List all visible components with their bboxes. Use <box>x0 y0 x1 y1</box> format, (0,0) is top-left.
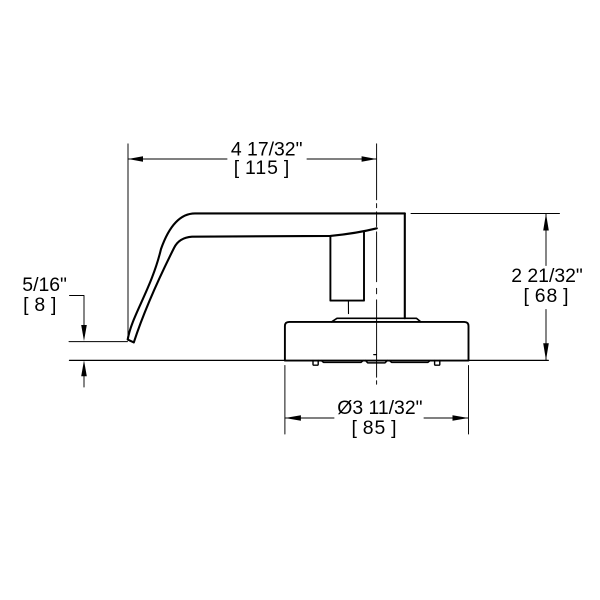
svg-text:2 21/32": 2 21/32" <box>511 265 583 287</box>
neck <box>330 231 364 300</box>
svg-text:5/16": 5/16" <box>22 274 67 296</box>
right dim extension line <box>411 213 560 215</box>
rose <box>285 322 469 361</box>
rose mounting post left <box>313 361 318 366</box>
lever tip extension line <box>69 341 128 343</box>
door face line left <box>70 359 285 361</box>
rose mounting post right <box>435 361 440 366</box>
extension line left <box>127 144 129 335</box>
rose underside recess left <box>321 361 363 363</box>
right dimension line <box>545 214 547 361</box>
top dimension line <box>128 158 377 160</box>
arrow gap-down <box>81 325 87 341</box>
arrow top-left <box>128 156 143 161</box>
lever right end <box>404 213 406 318</box>
arrow right-down <box>543 343 549 360</box>
center hidden tick <box>374 354 377 356</box>
arrow gap-up <box>81 360 87 376</box>
svg-text:Ø3 11/32": Ø3 11/32" <box>337 397 422 419</box>
arrow bottom-right <box>453 415 469 421</box>
extension line right solid <box>376 144 378 200</box>
rose underside recess right <box>389 361 430 363</box>
rose underside center dip <box>366 361 388 363</box>
door face line right <box>469 359 549 361</box>
lever handle outline <box>128 213 405 342</box>
arrow right-up <box>543 214 549 231</box>
svg-text:[ 8 ]: [ 8 ] <box>23 294 57 316</box>
svg-text:[ 68 ]: [ 68 ] <box>523 285 569 307</box>
arrow bottom-left <box>285 415 301 421</box>
bottom dim extension left <box>284 366 286 435</box>
svg-text:[ 115 ]: [ 115 ] <box>234 157 290 179</box>
gap dim leader <box>70 296 85 328</box>
centerline <box>376 204 378 385</box>
spindle <box>347 301 349 314</box>
gap dim lower tail <box>83 374 85 387</box>
svg-text:[ 85 ]: [ 85 ] <box>351 417 397 439</box>
rose liner <box>332 318 421 322</box>
arrow top-right <box>362 156 377 161</box>
bottom dim extension right <box>468 366 470 435</box>
bottom dimension line <box>285 417 469 419</box>
